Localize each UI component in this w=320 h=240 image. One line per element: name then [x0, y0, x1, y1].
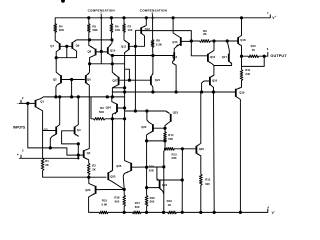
- svg-text:OUTPUT: OUTPUT: [270, 54, 287, 58]
- svg-text:620: 620: [205, 182, 210, 186]
- svg-text:Q6: Q6: [87, 77, 91, 81]
- svg-text:Q17: Q17: [222, 55, 228, 59]
- svg-text:COMPENSATION: COMPENSATION: [140, 9, 168, 13]
- svg-text:Q27: Q27: [112, 78, 118, 82]
- svg-text:Q18: Q18: [240, 38, 246, 42]
- svg-text:2K: 2K: [45, 163, 49, 167]
- svg-text:Q12: Q12: [145, 27, 151, 31]
- svg-text:Q14: Q14: [172, 55, 178, 59]
- svg-text:600: 600: [115, 200, 120, 204]
- svg-text:R16: R16: [149, 165, 155, 169]
- svg-text:26K: 26K: [92, 28, 98, 32]
- svg-text:20K: 20K: [172, 156, 177, 160]
- svg-text:50: 50: [252, 48, 256, 52]
- svg-text:Q23: Q23: [173, 111, 179, 115]
- svg-text:Q25: Q25: [110, 174, 116, 178]
- svg-text:Q1: Q1: [40, 100, 44, 104]
- svg-text:Q24: Q24: [162, 183, 168, 187]
- svg-text:Q15: Q15: [210, 55, 216, 59]
- svg-text:Q21: Q21: [155, 78, 161, 82]
- svg-text:500: 500: [168, 137, 173, 141]
- svg-text:Q22: Q22: [141, 125, 147, 129]
- svg-text:Q29: Q29: [85, 188, 91, 192]
- svg-text:1K: 1K: [168, 203, 172, 207]
- svg-text:Q4: Q4: [77, 128, 81, 132]
- svg-text:Q3: Q3: [44, 128, 48, 132]
- svg-text:Q5: Q5: [53, 78, 57, 82]
- svg-text:Q9: Q9: [76, 44, 80, 48]
- svg-text:Q13: Q13: [172, 40, 178, 44]
- svg-text:Q10: Q10: [110, 49, 116, 53]
- svg-text:Q16: Q16: [212, 78, 218, 82]
- svg-text:600: 600: [135, 205, 140, 209]
- svg-text:-: -: [274, 209, 275, 213]
- svg-text:Q24: Q24: [106, 105, 112, 109]
- svg-text:100: 100: [128, 28, 133, 32]
- svg-text:10K: 10K: [115, 28, 121, 32]
- svg-text:50K: 50K: [99, 110, 105, 114]
- svg-text:600: 600: [150, 200, 155, 204]
- svg-text:5.3K: 5.3K: [156, 42, 163, 46]
- svg-text:Q7: Q7: [50, 44, 54, 48]
- svg-text:Q19: Q19: [239, 90, 245, 94]
- svg-text:Q20: Q20: [199, 147, 205, 151]
- svg-text:Q2: Q2: [87, 151, 91, 155]
- svg-text:Q8: Q8: [87, 50, 91, 54]
- svg-text:20K: 20K: [149, 169, 154, 173]
- svg-text:Q11: Q11: [121, 45, 127, 49]
- svg-text:30K: 30K: [59, 28, 65, 32]
- svg-text:2K: 2K: [92, 168, 96, 172]
- svg-text:Q26: Q26: [116, 164, 122, 168]
- svg-text:5.0K: 5.0K: [102, 203, 108, 207]
- svg-text:240: 240: [245, 72, 250, 76]
- svg-text:+: +: [17, 153, 19, 157]
- svg-text:INPUTS: INPUTS: [13, 126, 26, 130]
